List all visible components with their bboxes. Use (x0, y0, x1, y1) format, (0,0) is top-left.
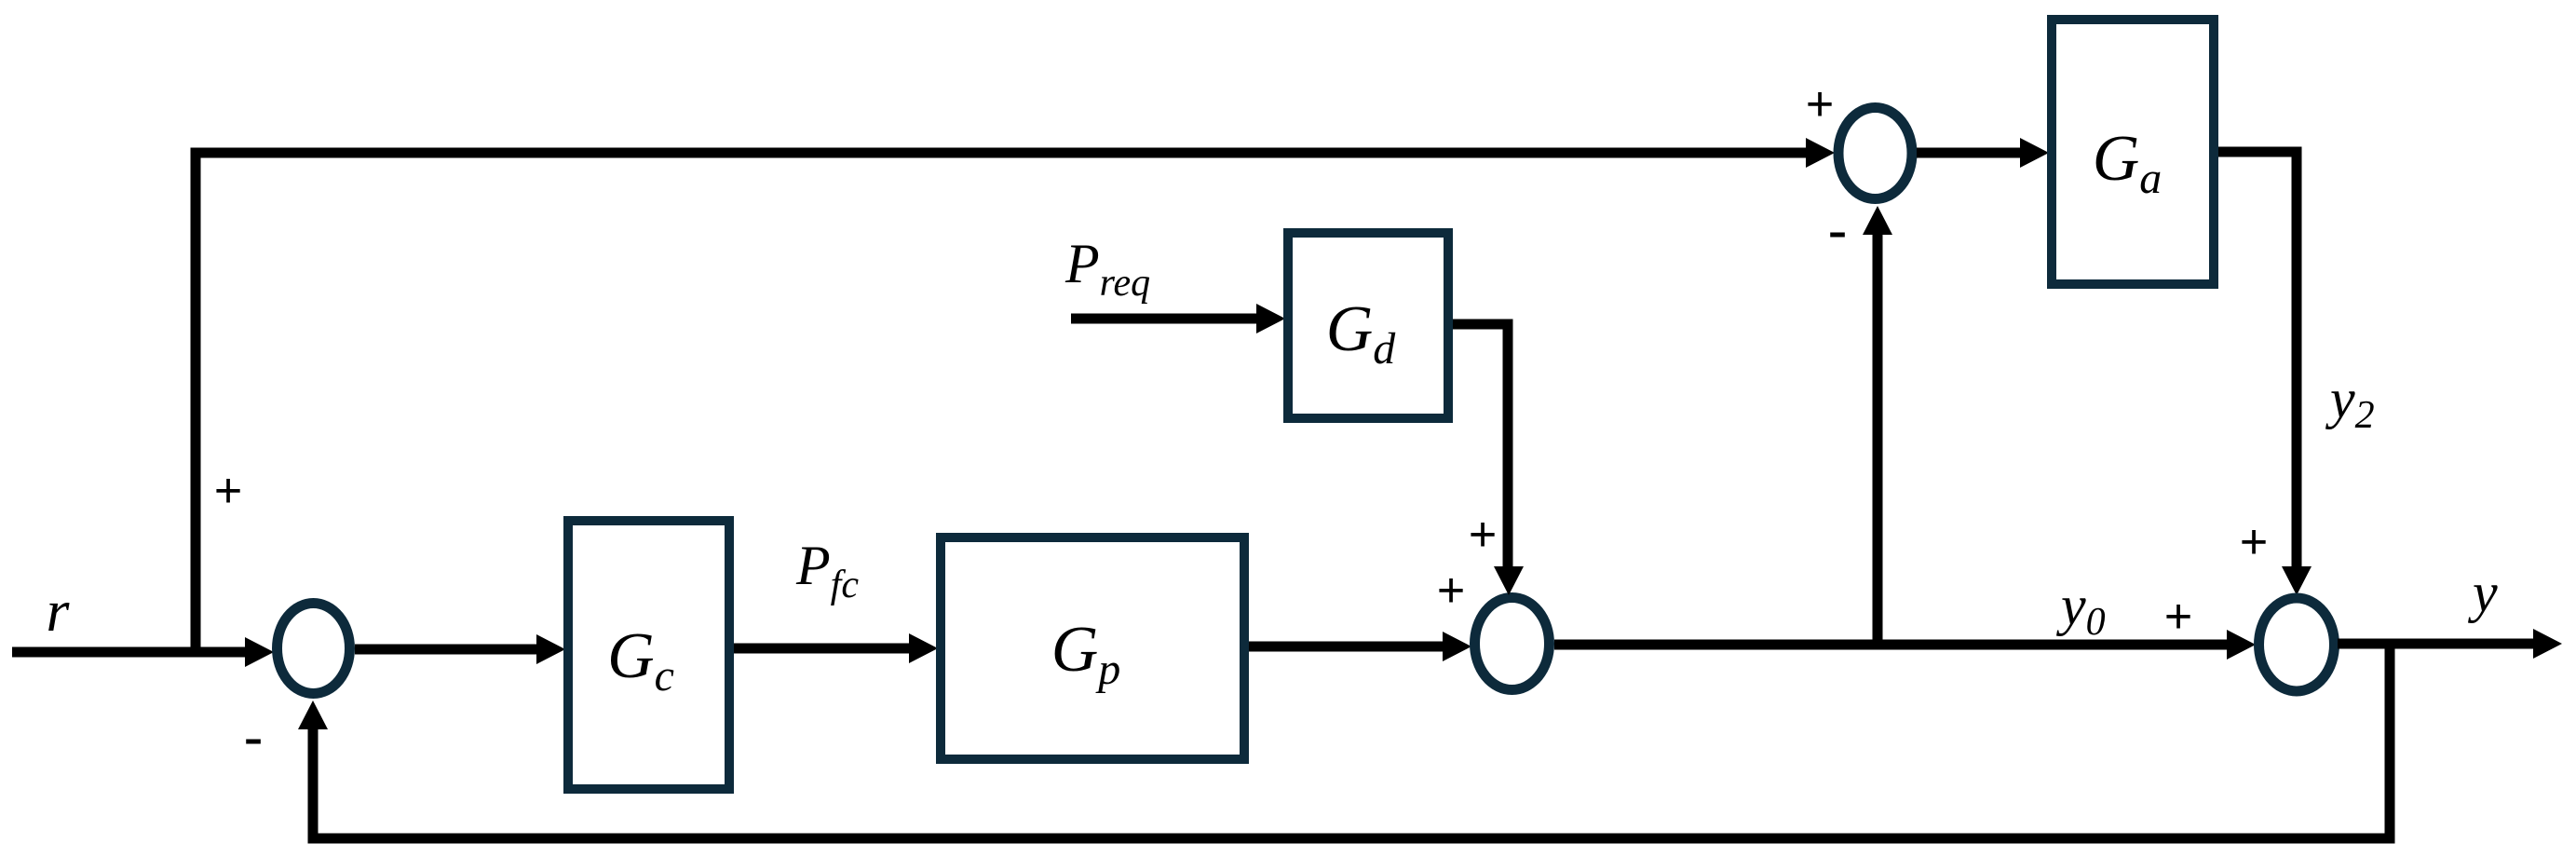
wire: S2 to summing junction S3 (long line with y0) (1554, 640, 2233, 650)
svg-text:-: - (1827, 197, 1847, 264)
wire: Gc to Gp (734, 644, 915, 654)
arrowhead into S2 (1443, 632, 1471, 661)
block Gd (1288, 233, 1448, 418)
wire: Gd output down to S2 (1453, 324, 1508, 574)
summing junction S1 (278, 604, 350, 694)
arrowhead into Gp (909, 633, 938, 663)
svg-text:+: + (2240, 515, 2268, 569)
arrowhead output y (2533, 629, 2562, 659)
svg-text:r: r (47, 578, 71, 644)
svg-text:+: + (1469, 508, 1497, 562)
arrowhead into S3 (2227, 630, 2256, 660)
svg-text:+: + (1437, 564, 1465, 618)
arrowhead into Gc (536, 634, 565, 664)
summing junction S2 (1475, 598, 1550, 690)
arrowhead into Gd (1256, 304, 1285, 333)
wire: branch vertical up from r line and top feedforward line to S4 (196, 153, 1810, 652)
summing junction S3 (output) (2259, 598, 2335, 691)
block Gc (568, 521, 729, 789)
svg-text:+: + (214, 464, 242, 518)
svg-text:+: + (2164, 590, 2192, 644)
svg-text:-: - (243, 703, 263, 770)
block Gp (941, 537, 1244, 759)
arrowhead into S1 (245, 637, 274, 667)
arrowhead into S4 bottom (1863, 206, 1892, 235)
wire: branch up from main line to S4 (1873, 228, 1883, 645)
wire: S3 to output y (2338, 639, 2536, 649)
arrowhead into S3 top (2282, 566, 2312, 595)
svg-text:+: + (1806, 77, 1834, 131)
wire: S1 to Gc (355, 645, 543, 655)
arrowhead into S1 bottom (298, 701, 328, 729)
arrowhead into S4 left (1806, 138, 1835, 168)
wire: Preq input to Gd (1071, 314, 1263, 324)
wire: Gp to summing junction S2 (1249, 642, 1449, 652)
block Ga (2052, 20, 2214, 284)
wire: S4 to Ga (1917, 148, 2027, 158)
wire: feedback from output down, along bottom, and up into S1 (313, 644, 2390, 838)
wire: Ga output right then down to S3 (y2 path) (2218, 152, 2297, 573)
arrowhead into S2 top (1494, 566, 1524, 595)
summing junction S4 (top) (1838, 108, 1912, 199)
wire: r input to summing junction S1 (12, 647, 251, 658)
arrowhead into Ga (2020, 138, 2049, 168)
